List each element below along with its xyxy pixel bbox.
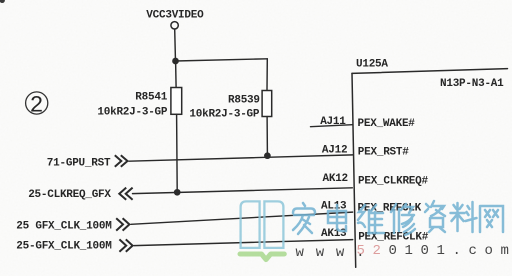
- svg-text:25-CLKREQ_GFX: 25-CLKREQ_GFX: [28, 189, 111, 201]
- chip U125A left border: [352, 73, 356, 267]
- svg-text:2: 2: [30, 93, 44, 119]
- connector chevron CLKREQ_GFX in: [119, 188, 132, 200]
- chip U125A top border: [352, 69, 508, 74]
- watermark book icon pages: [241, 201, 284, 248]
- connector chevron GPU_RST out: [115, 155, 128, 167]
- wire net GPU_RST to pin AJ12: [129, 155, 353, 161]
- watermark character jia: [293, 203, 315, 234]
- wire junction to R8539 top: [176, 59, 268, 61]
- svg-text:R8541: R8541: [135, 92, 167, 104]
- svg-text:VCC3VIDEO: VCC3VIDEO: [146, 10, 204, 22]
- svg-text:U125A: U125A: [356, 58, 388, 70]
- connector chevron -GFX_CLK_100M out: [119, 239, 132, 251]
- watermark character wang: [480, 206, 503, 232]
- wire net -GFX_CLK_100M to pin AK13: [134, 240, 353, 246]
- svg-text:R8539: R8539: [228, 95, 260, 107]
- svg-text:PEX_WAKE#: PEX_WAKE#: [358, 118, 416, 130]
- wire R8541 bottom to CLKREQ net: [176, 114, 179, 191]
- junction node R8541/CLKREQ: [174, 189, 181, 196]
- scan artifact top-left corner: [0, 0, 5, 3]
- watermark character liao: [451, 202, 477, 232]
- sheet reference circled 2: [26, 92, 48, 119]
- junction node below VCC: [172, 58, 179, 65]
- watermark character zi: [425, 201, 445, 232]
- watermark group: [240, 201, 512, 261]
- svg-text:10kR2J-3-GP: 10kR2J-3-GP: [97, 107, 168, 119]
- watermark character dian: [328, 205, 346, 231]
- svg-text:520101.com: 520101.com: [357, 243, 512, 259]
- svg-text:10kR2J-3-GP: 10kR2J-3-GP: [189, 109, 260, 121]
- svg-text:AK12: AK12: [323, 173, 348, 185]
- wire net CLKREQ_GFX to pin AK12: [133, 188, 353, 194]
- svg-text:71-GPU_RST: 71-GPU_RST: [47, 157, 111, 169]
- wire R8539 top lead: [266, 59, 268, 91]
- wire R8539 bottom to RST net: [266, 117, 268, 155]
- svg-text:AJ11: AJ11: [320, 116, 346, 128]
- watermark book icon base: [240, 254, 284, 260]
- svg-text:AJ12: AJ12: [322, 144, 347, 156]
- junction node R8539/RST: [264, 152, 271, 159]
- svg-text:25-GFX_CLK_100M: 25-GFX_CLK_100M: [16, 240, 112, 252]
- watermark character wei: [358, 205, 384, 234]
- pin stub AJ11: [311, 125, 353, 127]
- wire net GFX_CLK_100M to pin AL13: [131, 212, 353, 224]
- resistor R8539: [262, 91, 272, 117]
- watermark character xiu: [391, 204, 415, 235]
- svg-text:PEX_RST#: PEX_RST#: [358, 147, 409, 159]
- wire junction to R8541 top: [175, 61, 178, 87]
- svg-text:N13P-N3-A1: N13P-N3-A1: [440, 78, 504, 90]
- wire VCC circle to junction: [174, 29, 177, 58]
- svg-text:25 GFX_CLK_100M: 25 GFX_CLK_100M: [16, 220, 112, 232]
- power VCC3VIDEO symbol circle: [171, 22, 178, 29]
- svg-text:PEX_CLKREQ#: PEX_CLKREQ#: [358, 176, 429, 188]
- resistor R8541: [171, 88, 182, 115]
- connector chevron GFX_CLK_100M out: [116, 218, 129, 230]
